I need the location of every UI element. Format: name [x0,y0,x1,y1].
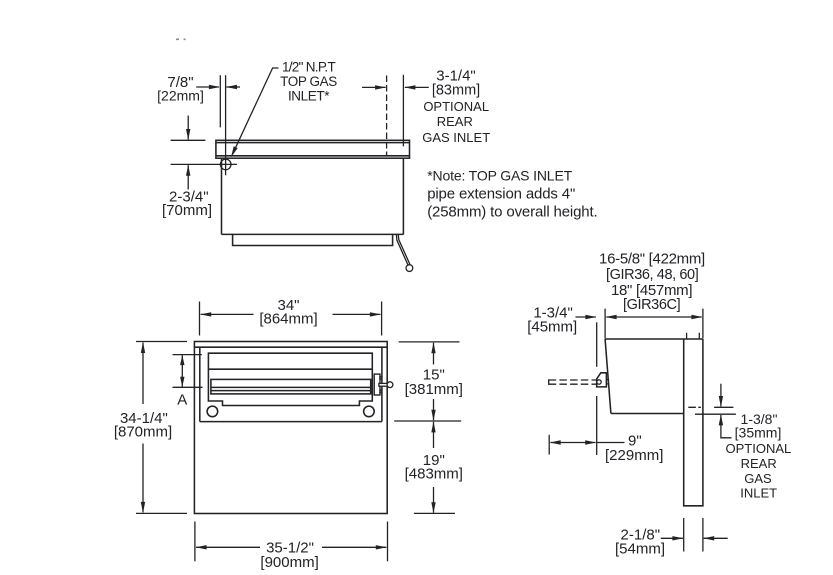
svg-text:INLET*: INLET* [288,89,330,104]
15in lower arrow [433,399,435,420]
inner panel top line [208,368,372,370]
2-3/4 down arrow [187,116,189,140]
svg-text:pipe extension adds 4": pipe extension adds 4" [427,185,575,202]
dashed pipe end cap [548,379,550,385]
2-3/4 up arrow [187,165,189,189]
extension line right [402,75,404,147]
knob tab bottom [380,390,382,393]
19in bottom tick [414,512,455,514]
A dim top tick [173,354,202,356]
bar inner bottom line [216,155,410,157]
body top edge [605,338,703,340]
svg-text:[GIR36, 48, 60]: [GIR36, 48, 60] [606,267,698,283]
body slanted front edge [605,339,611,414]
screw circle left [207,406,218,417]
svg-text:16-5/8" [422mm]: 16-5/8" [422mm] [599,251,705,268]
A dim bottom tick [173,386,203,388]
stray mark dots [176,38,186,40]
knob rod [379,383,388,386]
9in dim arrows [550,442,595,444]
34in dim right arrow [333,313,381,315]
svg-text:A: A [177,392,187,409]
rear inlet bottom tick [695,413,736,415]
grill rack [211,379,371,394]
2-1/8 ext line left [683,518,685,552]
2-1/8 dim right arrow [704,537,728,539]
extension line left of 7/8 dim [219,75,221,127]
svg-text:[45mm]: [45mm] [527,318,577,335]
bar inner top line [216,142,410,144]
svg-text:[483mm]: [483mm] [405,466,463,483]
body right edge [402,158,404,234]
dashed rear inlet line [386,76,388,156]
svg-text:OPTIONAL: OPTIONAL [726,441,792,456]
svg-text:[GIR36C]: [GIR36C] [623,297,680,313]
lip bottom line [194,346,387,348]
pipe centerline extension [225,75,227,175]
svg-text:[35mm]: [35mm] [735,425,782,441]
2-1/8 ext line right [702,518,704,552]
3-1/4 dim right arrow [405,86,429,88]
svg-text:[900mm]: [900mm] [260,554,318,571]
3-1/4 dim left arrow [362,86,386,88]
1-3/4 arrow [576,316,596,318]
svg-text:*Note: TOP GAS INLET: *Note: TOP GAS INLET [427,167,572,183]
valve connector lines [606,380,609,384]
dashed supply pipe top [549,379,597,381]
inner wall left [199,347,201,421]
svg-text:[22mm]: [22mm] [157,87,204,103]
16-5/8 ext line left [604,309,606,339]
9in leader [597,442,625,444]
knob plate [374,374,380,395]
19in lower arrow [433,487,435,513]
outer cabinet box [194,342,387,514]
15/19 middle tick [394,420,461,422]
35-1/2 dim left arrow [196,546,260,548]
34in ext line left [199,302,201,336]
19in upper arrow [433,422,435,448]
7/8 dim right arrow [226,86,240,88]
2-1/8 dim left arrow [661,537,683,539]
35-1/2 ext line right [387,522,389,562]
cord plug circle [406,265,413,272]
svg-text:[864mm]: [864mm] [259,310,317,327]
body bottom edge [222,233,404,235]
grill line 1 [211,386,371,388]
svg-text:[381mm]: [381mm] [405,381,463,398]
top fitting tick 2 [698,333,700,339]
gas valve body [597,373,607,387]
rear inlet centerline dashes [688,406,733,408]
svg-text:1/2" N.P.T: 1/2" N.P.T [282,59,336,74]
svg-text:GAS: GAS [744,471,772,486]
leader line for top gas inlet [233,68,278,152]
svg-text:[70mm]: [70mm] [162,202,212,219]
top channel bar [216,140,410,158]
inner wall right [381,347,383,421]
15in upper arrow [433,343,435,365]
svg-text:[229mm]: [229mm] [605,447,663,464]
34-1/4 top tick [136,341,187,343]
body left edge [221,158,223,234]
16-5/8 ext line right [702,309,704,339]
35-1/2 dim right arrow [322,546,386,548]
svg-text:TOP GAS: TOP GAS [280,74,337,89]
34-1/4 bottom tick [136,512,187,514]
top gas inlet circle [220,159,231,170]
base strip [233,234,393,245]
svg-text:OPTIONAL: OPTIONAL [423,99,489,114]
body bottom edge [611,413,684,415]
15in top tick [399,341,460,343]
divider line [200,421,382,423]
9in ext line left [548,435,550,455]
1-3/4 ext line lower [596,396,598,455]
knob tab top [380,377,382,380]
1-3/8 down arrow [720,384,722,407]
svg-text:REAR: REAR [741,456,777,471]
svg-text:[870mm]: [870mm] [114,424,172,441]
svg-text:GAS INLET: GAS INLET [422,130,490,145]
1-3/4 ext line upper [596,322,598,367]
top fitting tick 1 [686,333,688,339]
grill line 2 [211,390,371,392]
1-3/8 up arrow with elbow [721,415,732,438]
2-3/4 dim top tick [171,139,206,141]
broiler inner panel [208,353,372,405]
svg-text:INLET: INLET [740,486,777,501]
34in ext line right [381,302,383,336]
dashed supply pipe bottom [549,383,597,385]
screw circle right [364,406,375,417]
power cord [396,235,409,265]
35-1/2 ext line left [194,522,196,562]
valve circle [597,380,601,384]
rear column [684,339,703,506]
34-1/4 dim line [142,343,144,405]
7/8 dim left arrow [196,86,219,88]
16-5/8 dim line with arrows [606,316,701,318]
svg-text:(258mm) to overall height.: (258mm) to overall height. [427,204,597,221]
A dim line [181,355,183,387]
svg-text:REAR: REAR [437,114,473,129]
2-3/4 dim bottom tick [171,163,237,165]
svg-text:[83mm]: [83mm] [432,83,480,99]
svg-text:[54mm]: [54mm] [615,540,665,557]
34in dim left arrow [201,313,254,315]
knob ball [387,382,393,388]
